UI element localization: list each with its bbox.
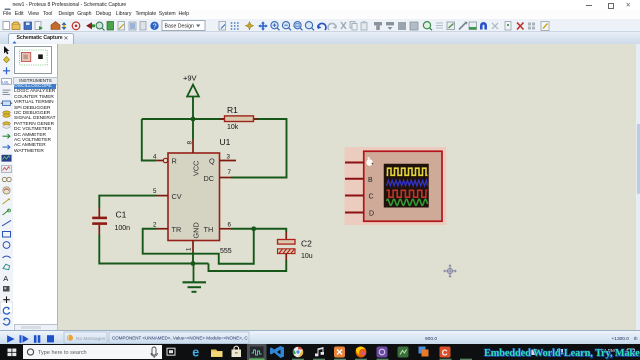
pin 2 TR stub [157, 228, 169, 230]
pin label D [369, 211, 374, 218]
pin number 2 [153, 222, 157, 229]
op chip U1 555 body [168, 153, 220, 241]
svg-text:1: 1 [186, 247, 193, 251]
pin 3 Q stub [220, 160, 237, 162]
pin number 3 [227, 153, 231, 160]
pin name GND [191, 222, 200, 238]
pin 6 TH stub [220, 228, 232, 230]
svg-text:C: C [369, 194, 374, 201]
wire +9V stem [192, 97, 194, 140]
svg-text:th: th [634, 336, 638, 341]
svg-text:CV: CV [172, 192, 182, 201]
pin name VCC [191, 161, 200, 176]
oscilloscope pin C [345, 195, 364, 197]
wire CV to C1 [99, 196, 156, 208]
svg-text:100n: 100n [115, 225, 131, 232]
wire ground rail jog to C2 [209, 260, 287, 271]
origin marker [443, 264, 457, 278]
svg-text:555: 555 [220, 248, 232, 255]
svg-text:+1300.0: +1300.0 [612, 336, 630, 342]
capacitor C1 [92, 208, 107, 235]
power symbol arrow [187, 85, 199, 97]
svg-text:TR: TR [172, 225, 182, 234]
pin number 6 [228, 222, 232, 229]
pin 4 R inversion bubble [156, 158, 168, 162]
wire C1 bottom to ground rail [99, 235, 208, 264]
pin label A [368, 161, 373, 168]
trace channel C red square [387, 190, 428, 197]
wire TH to C2 top [231, 229, 286, 232]
oscilloscope selection highlight [345, 147, 447, 225]
pin number 5 [153, 188, 157, 195]
svg-text:8: 8 [186, 141, 193, 145]
mouse cursor [366, 157, 373, 166]
svg-text:900.0: 900.0 [425, 336, 437, 342]
pin name TH [204, 225, 214, 234]
svg-text:R: R [172, 157, 177, 166]
svg-text:3: 3 [227, 153, 231, 160]
label C1 [116, 210, 127, 220]
label U1 [220, 137, 231, 147]
label R1 [227, 105, 238, 115]
node junction at ground [191, 261, 196, 266]
trace channel B blue [387, 180, 428, 186]
power rail +9V label [183, 74, 197, 83]
svg-text:5: 5 [153, 188, 157, 195]
svg-text:LBL: LBL [2, 80, 9, 84]
pin 7 DC stub [220, 177, 232, 179]
oscilloscope screen [384, 164, 429, 208]
wire top rail left of R1 [142, 118, 225, 120]
oscilloscope pin A [345, 162, 364, 164]
svg-text:e: e [192, 345, 199, 359]
pin number 7 [228, 169, 232, 176]
pin name DC [204, 174, 215, 183]
svg-text:10u: 10u [301, 253, 313, 260]
svg-text:R1: R1 [227, 105, 238, 115]
pin name CV [172, 192, 182, 201]
pin number 4 [153, 153, 157, 160]
svg-text:2: 2 [153, 222, 157, 229]
trace channel D green sine [387, 199, 428, 205]
ground symbol [183, 264, 207, 292]
wire R1 right to DC pin 7 [231, 119, 287, 178]
oscilloscope U2 body [364, 151, 442, 221]
pin label C [369, 194, 374, 201]
capacitor C2 polarized [278, 232, 296, 260]
pin name Q [209, 157, 215, 166]
pin name R [172, 157, 177, 166]
wire GND pin down [192, 252, 194, 264]
value 10u [301, 253, 313, 260]
svg-text:TH: TH [204, 225, 214, 234]
pin 8 VCC stub [192, 140, 194, 154]
svg-text:DC: DC [204, 174, 215, 183]
node junction at +9V rail [191, 117, 196, 122]
pin number 8 [186, 141, 193, 145]
svg-text:VCC: VCC [191, 161, 200, 176]
svg-text:10k: 10k [227, 124, 239, 131]
wire rail down to pin 4 [142, 119, 156, 161]
svg-text:D: D [369, 211, 374, 218]
node junction TH/TR [251, 226, 256, 231]
pin label B [368, 177, 373, 184]
value 10k [227, 124, 239, 131]
oscilloscope pin D [345, 212, 364, 214]
svg-text:Base Design: Base Design [165, 23, 195, 29]
pin 5 CV stub [157, 195, 169, 197]
pin 1 GND stub [192, 241, 194, 253]
svg-text:7: 7 [228, 169, 232, 176]
svg-text:Type here to search: Type here to search [38, 350, 87, 356]
svg-text:Q: Q [209, 157, 215, 166]
pin number 1 [186, 247, 193, 251]
label C2 [301, 239, 312, 249]
svg-text:GND: GND [191, 222, 200, 238]
svg-text:6: 6 [228, 222, 232, 229]
svg-text:4: 4 [153, 153, 157, 160]
svg-text:C2: C2 [301, 239, 312, 249]
svg-text:COMPONENT <UNNAMED>, Value=<NO: COMPONENT <UNNAMED>, Value=<NONE> Module… [112, 336, 248, 341]
svg-text:No Messages: No Messages [76, 336, 106, 342]
svg-text:+9V: +9V [183, 74, 197, 83]
value 555 [220, 248, 232, 255]
svg-text:C: C [442, 349, 448, 358]
svg-text:U1: U1 [220, 137, 231, 147]
resistor R1 [219, 116, 258, 122]
value 100n [115, 225, 131, 232]
svg-text:C1: C1 [116, 210, 127, 220]
wire TR loop to TH node [143, 229, 254, 264]
pin name TR [172, 225, 182, 234]
svg-text:B: B [368, 177, 373, 184]
oscilloscope pin B [345, 178, 364, 180]
svg-text:A: A [3, 274, 8, 283]
svg-text:?: ? [153, 23, 157, 30]
trace channel A yellow square [387, 168, 428, 175]
